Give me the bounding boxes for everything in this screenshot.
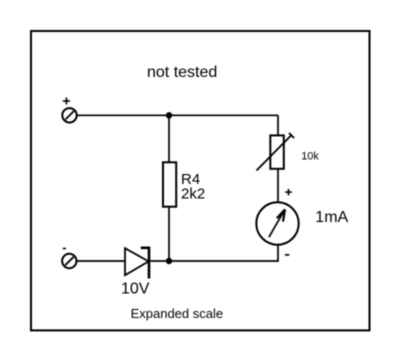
svg-text:2k2: 2k2 bbox=[181, 186, 205, 203]
label: + polarity at meter bbox=[285, 189, 292, 196]
svg-text:Expanded scale: Expanded scale bbox=[131, 306, 224, 321]
svg-text:not tested: not tested bbox=[147, 64, 217, 81]
wire: bottom horizontal from - terminal to zener anode bbox=[77, 260, 126, 262]
label: - polarity at meter bbox=[285, 254, 289, 256]
meter M1 1mA (moving-coil meter) bbox=[256, 202, 298, 244]
zener diode D1 10V bbox=[125, 248, 149, 279]
terminal - (negative input) bbox=[62, 254, 76, 268]
wire: from meter minus down to bottom wire bbox=[277, 245, 279, 262]
wire: from R4 down to bottom junction bbox=[168, 207, 170, 261]
label: - polarity at input terminal bbox=[63, 248, 66, 250]
wire: from rheostat down to meter bbox=[277, 169, 279, 203]
svg-text:10k: 10k bbox=[301, 151, 319, 163]
rheostat RV1 10k (variable resistor) bbox=[257, 133, 295, 171]
wire: right branch from top wire down to rheostat bbox=[277, 115, 279, 135]
svg-text:1mA: 1mA bbox=[315, 209, 348, 226]
resistor R4 2k2 bbox=[163, 162, 176, 206]
wire: from zener cathode to bottom junction and on to meter branch bbox=[150, 260, 278, 262]
node: junction of R4, diode and bottom wire bbox=[166, 258, 172, 264]
node: junction of R4 with top wire bbox=[166, 112, 172, 118]
terminal + (positive input) bbox=[62, 108, 76, 122]
svg-text:10V: 10V bbox=[121, 281, 150, 298]
label: + polarity at input terminal bbox=[63, 98, 70, 105]
wire: top horizontal from + terminal to right branch bbox=[77, 114, 278, 116]
border frame bbox=[31, 31, 370, 330]
wire: from top junction down to R4 bbox=[168, 115, 170, 162]
